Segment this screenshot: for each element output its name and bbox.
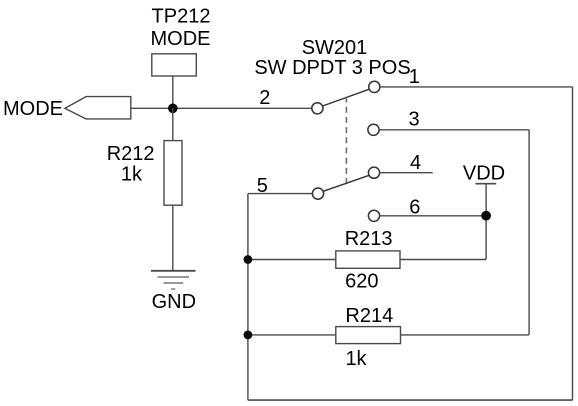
wire VDD to R213: [485, 184, 487, 260]
svg-text:R213: R213: [345, 228, 393, 250]
wire inner rail vertical (pin 3 to R214): [528, 130, 530, 335]
node VDD junction: [481, 211, 491, 221]
wire R214 to inner rail: [401, 334, 530, 336]
resistor R212 body: [164, 141, 182, 206]
wire pin 6 to VDD node: [380, 215, 487, 217]
svg-text:1k: 1k: [121, 164, 143, 186]
wire pin 3 to inner rail: [379, 129, 529, 131]
wire right rail vertical: [572, 87, 574, 400]
svg-text:R212: R212: [107, 143, 155, 165]
svg-text:3: 3: [408, 109, 419, 131]
wire left rail to R214: [248, 334, 336, 336]
ground symbol: [151, 271, 196, 289]
resistor R214 body: [336, 327, 401, 344]
wire node to SW201 pin 2: [173, 107, 312, 109]
svg-text:R214: R214: [345, 305, 393, 327]
wire left rail to R213: [248, 259, 336, 261]
svg-text:VDD: VDD: [463, 162, 505, 184]
switch lever pole A (pin 2 to pin 1): [323, 89, 370, 106]
pin 4 contact circle: [368, 167, 379, 178]
resistor R213 body: [336, 251, 400, 268]
svg-text:2: 2: [259, 87, 270, 109]
svg-text:GND: GND: [152, 291, 196, 313]
pin 3 contact circle: [368, 124, 379, 135]
port MODE symbol: [65, 97, 131, 119]
node left rail / R213 junction: [244, 255, 253, 264]
svg-text:620: 620: [345, 270, 378, 292]
svg-text:MODE: MODE: [3, 98, 63, 120]
wire TP212 to node MODE: [172, 76, 174, 108]
svg-text:SW DPDT 3 POS: SW DPDT 3 POS: [254, 57, 410, 79]
wire pin 5 to left rail: [248, 193, 313, 195]
power VDD bar: [476, 183, 497, 185]
node left rail / R214 junction: [244, 331, 253, 340]
svg-text:MODE: MODE: [151, 28, 211, 50]
pin 2 contact circle: [312, 103, 323, 114]
test point TP212 body: [152, 54, 197, 76]
pin 5 contact circle: [312, 188, 323, 199]
wire node to R212: [172, 108, 174, 140]
wire pin 4 stub: [380, 172, 433, 174]
svg-text:TP212: TP212: [152, 6, 211, 28]
wire port MODE to node: [131, 107, 173, 109]
svg-text:1k: 1k: [345, 348, 367, 370]
pin 1 contact circle: [369, 81, 380, 92]
node MODE junction: [168, 104, 178, 114]
svg-text:4: 4: [410, 152, 421, 174]
mechanical coupling dashed line: [345, 97, 347, 185]
wire pin 1 to right rail: [380, 86, 573, 88]
wire left rail vertical: [247, 194, 249, 401]
pin 6 contact circle: [368, 210, 379, 221]
wire R212 to ground: [172, 205, 174, 270]
svg-text:1: 1: [409, 66, 420, 88]
svg-text:SW201: SW201: [302, 37, 368, 59]
switch lever pole B (pin 5 to pin 4): [323, 175, 369, 191]
wire R213 to VDD node: [400, 259, 486, 261]
wire bottom rail: [248, 399, 573, 401]
